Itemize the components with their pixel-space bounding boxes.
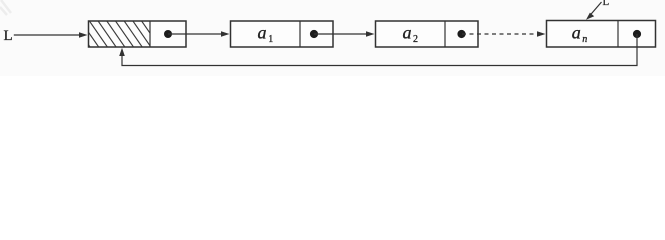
hatched data cell of head node xyxy=(72,21,160,47)
label an xyxy=(572,22,587,45)
node a1 divider xyxy=(299,21,301,47)
arrow from L to head node xyxy=(14,32,88,38)
node a1 box xyxy=(231,21,334,47)
node a1 pointer dot xyxy=(310,30,318,38)
svg-text:2: 2 xyxy=(413,34,418,45)
svg-text:L: L xyxy=(4,28,13,44)
svg-text:1: 1 xyxy=(268,34,273,45)
dashed arrow node a2 to node an xyxy=(462,31,546,37)
svg-text:n: n xyxy=(582,34,587,45)
svg-text:a: a xyxy=(403,22,412,42)
node an divider xyxy=(617,21,619,48)
faint scan artifact top-left xyxy=(0,0,11,15)
label a1 xyxy=(258,22,274,45)
circular return wire from node an back to head node xyxy=(122,34,637,66)
arrow head node to node a1 xyxy=(168,31,230,37)
label a2 xyxy=(403,22,419,45)
head node pointer dot xyxy=(164,30,172,38)
svg-text:L: L xyxy=(603,0,610,8)
head node divider xyxy=(149,21,151,47)
diagonal arrow pointing to node an (tail pointer) xyxy=(586,2,602,20)
arrow node a1 to node a2 xyxy=(314,31,375,37)
node an box xyxy=(547,21,656,48)
svg-text:a: a xyxy=(572,22,581,42)
node a2 pointer dot xyxy=(457,30,465,38)
node a2 divider xyxy=(444,21,446,47)
node a2 box xyxy=(376,21,479,47)
svg-text:a: a xyxy=(258,22,267,42)
node an pointer dot xyxy=(633,30,641,38)
return wire arrowhead into head node xyxy=(119,48,125,56)
head node box xyxy=(89,21,187,47)
